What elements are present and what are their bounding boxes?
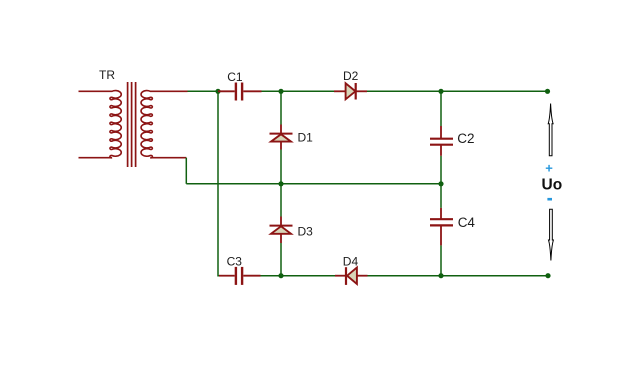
junction dot mid right column bbox=[438, 181, 443, 186]
wire transformer drop bbox=[185, 158, 187, 184]
wire D column seg1 bbox=[280, 91, 282, 124]
capacitor C1 bbox=[218, 83, 262, 101]
wire D column seg3 bbox=[280, 243, 282, 276]
diode D2 bbox=[334, 83, 367, 100]
wire top rail seg1 bbox=[188, 90, 219, 92]
wire bottom rail seg1 bbox=[261, 275, 336, 277]
capacitor C3 bbox=[219, 267, 261, 285]
svg-text:C2: C2 bbox=[457, 131, 474, 146]
wire bottom rail seg2 bbox=[368, 275, 549, 277]
wire top rail seg2 bbox=[262, 90, 335, 92]
svg-text:C1: C1 bbox=[227, 70, 243, 84]
junction dot top C column bbox=[215, 89, 220, 94]
svg-text:D2: D2 bbox=[343, 69, 359, 83]
wire D column seg2 bbox=[280, 150, 282, 217]
capacitor C4 bbox=[430, 208, 453, 246]
svg-text:C3: C3 bbox=[227, 255, 243, 269]
node top rail end bbox=[545, 89, 550, 94]
junction dot top D column bbox=[278, 89, 283, 94]
diode D4 bbox=[335, 267, 368, 285]
junction dot mid D column bbox=[278, 181, 283, 186]
wire top rail seg3 bbox=[367, 90, 548, 92]
junction dot top right column bbox=[438, 89, 443, 94]
transformer TR primary winding bbox=[79, 91, 122, 158]
svg-text:+: + bbox=[545, 161, 553, 176]
svg-text:Uo: Uo bbox=[542, 176, 563, 193]
label minus bbox=[547, 198, 552, 201]
svg-text:C4: C4 bbox=[458, 215, 476, 230]
wire right column seg1 bbox=[440, 91, 442, 126]
wire left column bbox=[218, 91, 220, 275]
wire right column seg2 bbox=[440, 156, 442, 208]
probe arrow up (Uo +) bbox=[548, 104, 553, 156]
node bottom rail end bbox=[545, 273, 550, 278]
junction dot bottom D column bbox=[278, 273, 283, 278]
svg-text:D3: D3 bbox=[298, 225, 314, 239]
capacitor C2 bbox=[430, 126, 453, 156]
diode D1 bbox=[270, 125, 293, 150]
transformer TR secondary winding bbox=[141, 91, 187, 158]
wire middle rail bbox=[186, 183, 441, 185]
svg-text:D4: D4 bbox=[343, 255, 359, 269]
diode D3 bbox=[270, 217, 293, 244]
svg-text:D1: D1 bbox=[298, 130, 314, 144]
junction dot bottom right column bbox=[438, 273, 443, 278]
wire right column seg3 bbox=[440, 245, 442, 275]
transformer TR core bbox=[128, 82, 136, 167]
probe arrow down (Uo -) bbox=[549, 209, 554, 260]
svg-text:TR: TR bbox=[99, 68, 115, 82]
